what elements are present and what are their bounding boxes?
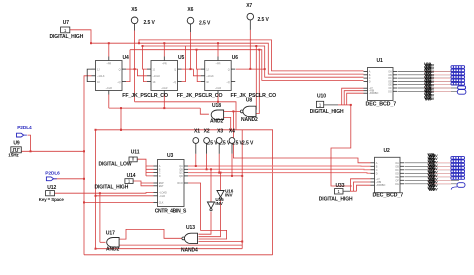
svg-text:QD: QD bbox=[179, 175, 183, 178]
flip-flop U5 (FF_JK_PSCLR_CO) bbox=[147, 55, 185, 95]
probe pill U2 bottom bbox=[457, 183, 465, 188]
svg-text:X1: X1 bbox=[194, 128, 200, 134]
decoder U1 (DEC_BCD_7) bbox=[364, 58, 398, 107]
svg-text:Q: Q bbox=[228, 68, 230, 71]
svg-text:Key = Space: Key = Space bbox=[39, 197, 65, 202]
wire U16 input from QC net bbox=[220, 173, 222, 191]
svg-text:U9: U9 bbox=[13, 141, 20, 147]
wire lamp X3 tap bbox=[218, 154, 220, 173]
svg-text:U10: U10 bbox=[317, 94, 326, 100]
probe indicators for U1 bbox=[451, 66, 465, 69]
svg-text:NV: NV bbox=[433, 187, 438, 191]
wire U11 to counter A bbox=[137, 159, 153, 166]
wire counter CLR feed bbox=[96, 195, 154, 197]
wire X7 stem to U6 Q net bbox=[249, 30, 251, 69]
svg-text:~CLR: ~CLR bbox=[215, 87, 222, 90]
decoder U2 (DEC_BCD_7) bbox=[371, 148, 405, 199]
svg-text:2.5 V: 2.5 V bbox=[144, 20, 156, 26]
svg-text:DIGITAL_HIGH: DIGITAL_HIGH bbox=[319, 196, 353, 202]
wire U15 input from QB net bbox=[210, 169, 212, 202]
clock source U9 (15Hz) bbox=[8, 141, 21, 158]
wire U14 to counter ENP/ENT bbox=[133, 181, 153, 183]
source U33 DIGITAL_HIGH bbox=[319, 183, 353, 202]
probe indicators for U2 bbox=[451, 157, 465, 160]
svg-text:FF_JK_PSCLR_CO: FF_JK_PSCLR_CO bbox=[231, 93, 277, 99]
wire U5 notQ riser bbox=[182, 46, 186, 82]
inverter column after U2 (U26-U32 INV) bbox=[428, 152, 439, 192]
svg-text:2.5 V: 2.5 V bbox=[199, 20, 211, 26]
probe pill U1 lower 2 bbox=[457, 90, 466, 95]
svg-text:~CLR: ~CLR bbox=[106, 87, 113, 90]
wire U17 lower input line y245 bbox=[119, 244, 242, 246]
wire FF clear rail B y108.1 bbox=[109, 95, 201, 109]
svg-text:AND2: AND2 bbox=[106, 247, 120, 253]
inverter column after U1 (U19-U25 INV) bbox=[424, 61, 435, 101]
svg-text:2.5 V: 2.5 V bbox=[242, 140, 254, 146]
svg-text:X7: X7 bbox=[246, 3, 252, 9]
junction dots bbox=[90, 42, 92, 44]
inverter U16 (INV) bbox=[217, 189, 234, 200]
svg-text:U8: U8 bbox=[246, 98, 253, 104]
svg-text:~CLR: ~CLR bbox=[159, 195, 166, 198]
svg-text:~1CLK: ~1CLK bbox=[206, 75, 214, 78]
wire U33 output fan to U2 bbox=[343, 190, 350, 192]
wire U13 output staple to U17 input bbox=[119, 229, 182, 239]
wire QD into U13 input bbox=[199, 241, 243, 243]
svg-text:~PR: ~PR bbox=[162, 63, 167, 66]
wire decode vertical x242 bbox=[241, 130, 243, 249]
wire NAND U8 input feeds bbox=[255, 46, 257, 109]
wire U6 J feed bbox=[197, 50, 201, 69]
wire U1 outputs to probes bbox=[398, 71, 460, 73]
svg-text:U6: U6 bbox=[232, 55, 239, 61]
connector flag P2DL6 bbox=[45, 170, 60, 180]
svg-text:NAND4: NAND4 bbox=[181, 247, 198, 253]
wire shared BI net down to U2 area bbox=[331, 105, 352, 186]
source U12 (Key = Space) bbox=[39, 185, 65, 202]
svg-text:X5: X5 bbox=[131, 7, 137, 13]
wire U8 output to U2 A line bbox=[233, 111, 370, 162]
svg-text:U4: U4 bbox=[123, 55, 130, 61]
wire U6 Q to bus bbox=[236, 68, 265, 70]
gate U8 (NAND2) mirrored bbox=[240, 98, 258, 123]
lamp X3 bbox=[216, 128, 223, 153]
gate U18 (AND2) mirrored bbox=[210, 103, 224, 124]
flip-flop U6 (FF_JK_PSCLR_CO) bbox=[201, 55, 239, 95]
svg-text:P2DL4: P2DL4 bbox=[17, 125, 32, 131]
svg-text:~PR: ~PR bbox=[216, 63, 221, 66]
wire counter B C D input ties bbox=[146, 166, 154, 176]
wire U5 Q to U6 CLK bbox=[182, 69, 201, 76]
wire counter CLK feed bbox=[84, 201, 154, 203]
svg-text:~Q: ~Q bbox=[117, 81, 120, 84]
wire U10 output fan to U1 bbox=[324, 104, 338, 106]
svg-text:~BI/RBO: ~BI/RBO bbox=[369, 92, 379, 95]
wire U7 output to top rail bbox=[70, 30, 91, 43]
svg-text:U11: U11 bbox=[131, 150, 140, 156]
svg-text:X2: X2 bbox=[204, 128, 210, 134]
wire counter QA bus to U2 B bbox=[188, 165, 371, 167]
wire left rail x95.5 bbox=[95, 130, 97, 249]
svg-text:DEC_BCD_7: DEC_BCD_7 bbox=[373, 193, 404, 199]
wire U6 CLR to rail A bbox=[217, 95, 219, 102]
svg-text:D: D bbox=[376, 172, 378, 175]
wire flag P2DL6 to rail bbox=[54, 178, 84, 180]
svg-text:INV: INV bbox=[215, 201, 223, 206]
lamp X2 bbox=[204, 128, 210, 153]
top bus rail y40 bbox=[139, 40, 364, 71]
svg-text:CLK: CLK bbox=[159, 201, 164, 204]
lamp X5 bbox=[131, 7, 138, 31]
svg-text:P2DL6: P2DL6 bbox=[45, 170, 60, 176]
wire U4 J-K tie hook bbox=[87, 69, 91, 82]
wire U5 J feed bbox=[143, 46, 148, 69]
top bus rail y49.7 bbox=[130, 50, 364, 81]
wire U5 K tie bbox=[144, 69, 148, 82]
svg-text:NAND2: NAND2 bbox=[241, 117, 258, 123]
wire bottom rail y254.8 bbox=[84, 254, 273, 256]
wire U4 notQ riser bbox=[126, 50, 130, 82]
wire U17 output to key net bbox=[100, 241, 106, 243]
svg-text:U7: U7 bbox=[63, 20, 70, 26]
svg-text:U3: U3 bbox=[167, 153, 174, 159]
wire counter QC bus to U2 D bbox=[188, 172, 371, 175]
flip-flop U4 (FF_JK_PSCLR_CO) bbox=[92, 55, 130, 95]
wire counter QB bus to U2 C bbox=[188, 168, 371, 171]
top bus rail y46 bbox=[143, 46, 364, 77]
svg-text:DIGITAL_LOW: DIGITAL_LOW bbox=[99, 162, 132, 168]
svg-text:1K: 1K bbox=[153, 81, 156, 84]
wire U18 top input from U8 output bbox=[224, 110, 241, 112]
source U7 DIGITAL_HIGH bbox=[50, 20, 84, 40]
source U11 (DIGITAL_LOW) bbox=[99, 150, 140, 168]
svg-text:FF_JK_PSCLR_CO: FF_JK_PSCLR_CO bbox=[122, 93, 168, 99]
svg-text:U1: U1 bbox=[377, 58, 384, 64]
svg-text:AND2: AND2 bbox=[210, 119, 224, 125]
probe pill U1 lower 1 bbox=[458, 86, 466, 89]
svg-text:1K: 1K bbox=[206, 81, 209, 84]
left rail x84 clock rail to U4 CLK bbox=[84, 76, 92, 255]
svg-text:1K: 1K bbox=[97, 81, 100, 84]
svg-text:~BI/RBO: ~BI/RBO bbox=[376, 184, 386, 187]
wire flag P2DL4 down to clock net bbox=[28, 135, 31, 151]
svg-text:Q: Q bbox=[119, 68, 121, 71]
svg-text:~Q: ~Q bbox=[226, 81, 229, 84]
svg-text:DIGITAL_HIGH: DIGITAL_HIGH bbox=[95, 185, 129, 191]
connector flag P2DL4 bbox=[17, 125, 33, 137]
source U10 DIGITAL_HIGH bbox=[310, 94, 344, 115]
svg-text:U2: U2 bbox=[384, 148, 391, 154]
svg-text:RCO: RCO bbox=[177, 182, 183, 185]
wire key U12 to U17 and counter bbox=[55, 193, 100, 242]
probe hook curve U2 bbox=[451, 187, 457, 190]
wire U4 Q to U5 CLK bbox=[126, 69, 147, 76]
gate U17 (AND2) mirrored bbox=[106, 231, 120, 253]
wire FF preset verticals bbox=[108, 43, 110, 56]
gate U13 (NAND4) mirrored bbox=[181, 225, 198, 253]
wire U18 bottom input down to mid rail bbox=[224, 117, 231, 129]
wire bottom rail y248.7 bbox=[96, 248, 243, 250]
svg-text:DIGITAL_HIGH: DIGITAL_HIGH bbox=[50, 34, 84, 40]
wire X5 stem to U4 Q net bbox=[134, 31, 136, 70]
svg-text:CNTR_4BIN_S: CNTR_4BIN_S bbox=[155, 208, 187, 214]
svg-text:X6: X6 bbox=[187, 7, 193, 13]
wire X6 stem to U5 Q net bbox=[190, 32, 192, 69]
wire U16 output to U13 input bbox=[199, 200, 221, 236]
wire lamp X1 tap bbox=[195, 154, 197, 166]
source U14 (DIGITAL_HIGH) bbox=[95, 173, 136, 191]
wire U18 output to rail B bbox=[200, 108, 209, 114]
inverter U15 (INV) bbox=[207, 197, 224, 211]
lamp X1 bbox=[193, 128, 200, 153]
svg-text:~1CLK: ~1CLK bbox=[153, 75, 161, 78]
svg-text:DEC_BCD_7: DEC_BCD_7 bbox=[366, 102, 397, 108]
svg-text:FF_JK_PSCLR_CO: FF_JK_PSCLR_CO bbox=[177, 93, 223, 99]
svg-text:OG: OG bbox=[395, 183, 399, 186]
wire clock source to rail bbox=[21, 150, 84, 152]
counter U3 (CNTR_4BIN_S) bbox=[154, 153, 189, 214]
svg-text:~1CLK: ~1CLK bbox=[97, 75, 105, 78]
wire FF clear rail A y101.8 bbox=[135, 69, 236, 130]
svg-text:U17: U17 bbox=[106, 231, 115, 237]
svg-text:D: D bbox=[369, 80, 371, 83]
wire U15 output to U13 input bbox=[199, 212, 212, 235]
wire lamp X2 tap bbox=[206, 154, 208, 170]
svg-text:NV: NV bbox=[429, 97, 434, 101]
svg-text:~Q: ~Q bbox=[173, 81, 176, 84]
svg-text:~PR: ~PR bbox=[106, 63, 111, 66]
svg-text:Q: Q bbox=[174, 68, 176, 71]
svg-text:D: D bbox=[159, 175, 161, 178]
svg-text:X3: X3 bbox=[217, 128, 223, 134]
wire lamp X4 tap bbox=[231, 154, 233, 176]
lamp X6 bbox=[187, 7, 194, 32]
svg-text:~CLR: ~CLR bbox=[161, 87, 168, 90]
lamp X4 bbox=[229, 128, 235, 153]
wire RCO to U13 input bbox=[188, 183, 227, 239]
svg-text:U13: U13 bbox=[186, 225, 195, 231]
svg-text:OG: OG bbox=[388, 90, 392, 93]
svg-text:U18: U18 bbox=[212, 103, 221, 109]
wire counter QD line bbox=[188, 175, 242, 177]
svg-text:INV: INV bbox=[225, 193, 233, 198]
svg-text:15Hz: 15Hz bbox=[8, 153, 19, 158]
top bus rail y43 bbox=[91, 43, 364, 74]
wire U6 K tie bbox=[197, 69, 201, 82]
svg-text:DIGITAL_HIGH: DIGITAL_HIGH bbox=[310, 109, 344, 115]
lamp X7 bbox=[246, 3, 253, 30]
svg-text:2.5 V: 2.5 V bbox=[258, 17, 270, 23]
wire U2 outputs to probes bbox=[405, 162, 460, 164]
wire mid rail y129.8 bbox=[96, 108, 273, 255]
svg-text:ENT: ENT bbox=[159, 185, 164, 188]
svg-text:X4: X4 bbox=[229, 128, 235, 134]
svg-text:U5: U5 bbox=[178, 55, 185, 61]
